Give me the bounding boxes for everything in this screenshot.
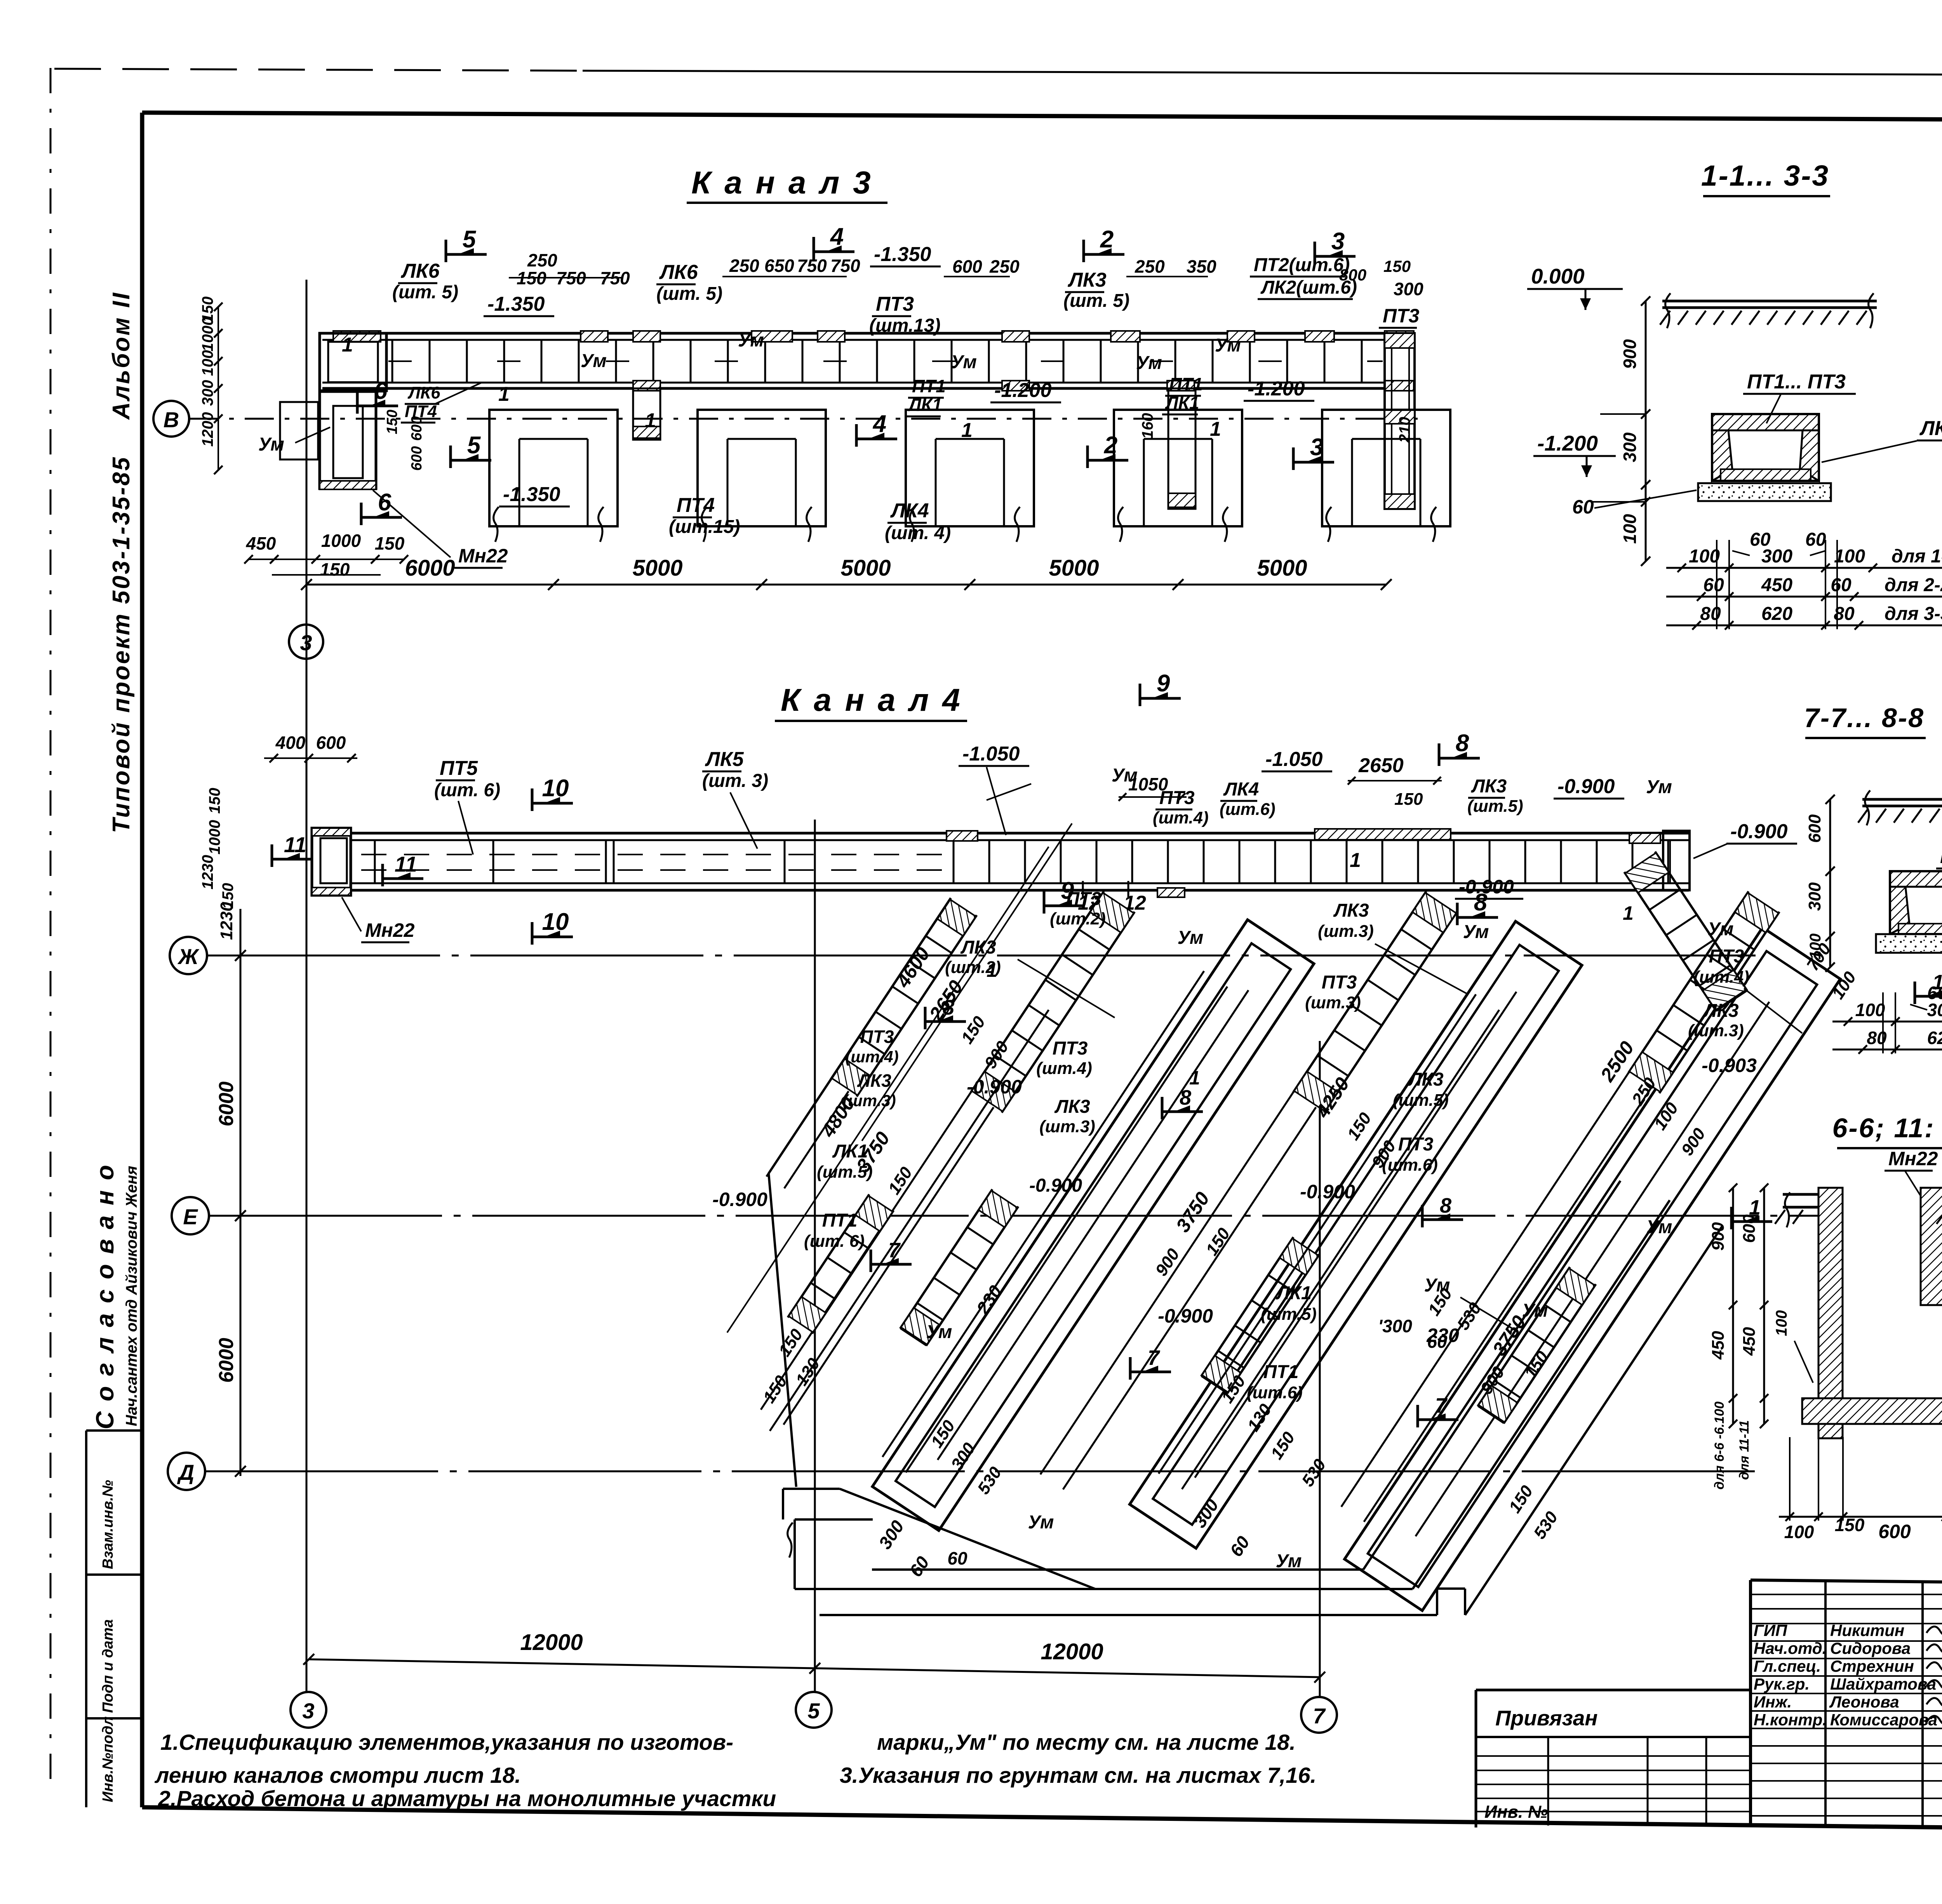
- svg-text:7-7... 8-8: 7-7... 8-8: [1804, 703, 1925, 733]
- svg-text:100: 100: [1784, 1522, 1814, 1542]
- svg-text:1-1... 3-3: 1-1... 3-3: [1701, 159, 1829, 192]
- svg-text:(шт. 6): (шт. 6): [804, 1232, 865, 1251]
- канал 3 section flags: [445, 240, 447, 262]
- svg-text:В: В: [164, 407, 179, 432]
- svg-text:Гл.спец.: Гл.спец.: [1754, 1657, 1821, 1675]
- zone bottom-left hook: [783, 1488, 840, 1490]
- svg-text:-1.350: -1.350: [874, 243, 931, 266]
- канал 3 riser 2: [1168, 388, 1195, 509]
- svg-text:620: 620: [1761, 604, 1792, 624]
- svg-text:'300: '300: [1378, 1316, 1412, 1336]
- svg-text:300: 300: [1927, 1000, 1942, 1020]
- svg-text:Инв. №: Инв. №: [1484, 1802, 1548, 1822]
- svg-text:60: 60: [1572, 496, 1594, 518]
- svg-text:Ж: Ж: [177, 944, 200, 969]
- svg-text:300: 300: [199, 380, 216, 406]
- svg-text:ПТ3: ПТ3: [1383, 305, 1420, 327]
- pit 3 (right wide inspection trench): [1345, 928, 1840, 1611]
- канал 4 hatched patches: [947, 831, 978, 841]
- svg-text:ЛК3: ЛК3: [857, 1070, 891, 1091]
- svg-text:3: 3: [300, 630, 312, 655]
- svg-text:4: 4: [830, 223, 844, 250]
- svg-text:ЛК3: ЛК3: [1067, 269, 1107, 291]
- svg-text:3: 3: [1331, 228, 1345, 255]
- svg-text:100: 100: [1807, 933, 1824, 959]
- svg-text:Леонова: Леонова: [1829, 1693, 1899, 1711]
- svg-text:ПТ1... ПТ3: ПТ1... ПТ3: [1747, 371, 1846, 393]
- svg-text:ПТ5: ПТ5: [440, 757, 478, 780]
- svg-text:11: 11: [395, 852, 417, 876]
- svg-text:Ум: Ум: [1522, 1300, 1548, 1321]
- left margin stamp boxes: [85, 1431, 87, 1807]
- svg-text:3: 3: [302, 1699, 314, 1723]
- svg-text:ЛК3: ЛК3: [1054, 1096, 1090, 1117]
- svg-text:1: 1: [1189, 1067, 1200, 1089]
- svg-text:150: 150: [206, 788, 223, 814]
- svg-text:Мн22: Мн22: [365, 919, 415, 941]
- svg-text:12000: 12000: [1041, 1639, 1103, 1664]
- svg-text:8: 8: [1180, 1086, 1191, 1109]
- svg-text:Шайхратова: Шайхратова: [1830, 1675, 1936, 1693]
- svg-text:Согласовано: Согласовано: [91, 1155, 119, 1429]
- svg-text:ПТ1: ПТ1: [912, 376, 946, 396]
- svg-text:150: 150: [375, 533, 405, 553]
- svg-text:(шт.3): (шт.3): [1305, 993, 1361, 1012]
- канал 3 left start chamber Ум: [320, 333, 386, 391]
- section 6-6 bottom dims: [1779, 1516, 1942, 1518]
- svg-text:-0.900: -0.900: [1730, 820, 1788, 843]
- svg-text:(шт.6): (шт.6): [1247, 1383, 1303, 1402]
- svg-text:Д: Д: [177, 1460, 194, 1485]
- svg-text:300: 300: [1394, 279, 1423, 299]
- svg-text:-0.900: -0.900: [1557, 775, 1615, 798]
- канал 3 detail box on axis B: [280, 402, 318, 459]
- svg-text:250: 250: [527, 250, 557, 270]
- row dimension line 6000/6000 left: [240, 909, 242, 1476]
- svg-text:Ум: Ум: [926, 1322, 952, 1342]
- svg-text:(шт.13): (шт.13): [869, 315, 940, 336]
- svg-text:Типовой проект 503-1-35-85: Типовой проект 503-1-35-85: [108, 456, 135, 833]
- axis Е circle: [172, 1197, 209, 1234]
- svg-text:ЛК1: ЛК1: [908, 395, 942, 415]
- left edge ladder channel of zone: [766, 898, 976, 1194]
- diagonal ladder channel down-right from band end: [1624, 852, 1747, 1011]
- канал 3 column footings: [489, 410, 618, 526]
- svg-text:ПТ4: ПТ4: [677, 494, 715, 517]
- svg-text:Ум: Ум: [1646, 777, 1672, 797]
- svg-text:лению каналов смотри лист 18: лению каналов смотри лист 18.: [154, 1763, 521, 1788]
- section 6-6 left wall: [1818, 1188, 1843, 1438]
- svg-text:ЛК6: ЛК6: [407, 383, 440, 402]
- svg-text:650: 650: [764, 256, 794, 276]
- svg-text:Стрехнин: Стрехнин: [1830, 1657, 1914, 1675]
- канал 4 band rungs dense right: [953, 840, 955, 883]
- svg-text:ЛК3: ЛК3: [1333, 900, 1369, 921]
- svg-text:1: 1: [342, 334, 353, 356]
- svg-text:620: 620: [1927, 1028, 1942, 1048]
- svg-text:(шт. 5): (шт. 5): [656, 284, 722, 304]
- svg-text:6: 6: [374, 378, 388, 404]
- канал 3 riser 1: [633, 388, 660, 440]
- section 1-1 channel cross-section: [1712, 414, 1819, 430]
- svg-text:7: 7: [1435, 1394, 1448, 1417]
- svg-text:-0.903: -0.903: [1702, 1055, 1757, 1076]
- diagonal ladder channel lower segment 1: [900, 1189, 1018, 1346]
- svg-text:(шт.5): (шт.5): [1467, 797, 1523, 816]
- svg-text:100: 100: [1834, 546, 1865, 567]
- svg-text:(шт. 3): (шт. 3): [702, 771, 768, 791]
- svg-text:ПТ3: ПТ3: [1066, 889, 1102, 909]
- svg-text:(шт.4): (шт.4): [1036, 1059, 1092, 1078]
- svg-text:ПТ3: ПТ3: [860, 1027, 894, 1047]
- канал 3 right end chamber: [1385, 333, 1415, 509]
- канал 3 band hatched embedment patches top: [333, 331, 381, 342]
- axis Ж circle: [170, 937, 207, 974]
- svg-text:ПТ3: ПТ3: [1053, 1038, 1088, 1059]
- svg-text:(шт.3): (шт.3): [842, 1091, 896, 1110]
- svg-text:150: 150: [1383, 257, 1411, 275]
- svg-text:ГИП: ГИП: [1754, 1621, 1787, 1639]
- zone left boundary line: [769, 898, 951, 1173]
- svg-text:ПТ1: ПТ1: [1169, 374, 1203, 394]
- section 6-6 floor stubs: [1783, 1193, 1818, 1196]
- svg-text:300: 300: [1761, 546, 1792, 567]
- svg-text:100: 100: [1773, 1310, 1790, 1336]
- канал 4 left start chamber: [312, 828, 351, 895]
- svg-text:Ум: Ум: [951, 352, 977, 372]
- svg-text:К а н а л 3: К а н а л 3: [691, 165, 873, 200]
- svg-text:-0.900: -0.900: [1300, 1181, 1355, 1203]
- svg-text:5000: 5000: [840, 555, 891, 581]
- svg-text:Ум: Ум: [1178, 928, 1204, 948]
- main frame bottom border: [142, 1807, 1942, 1834]
- канал 3 top small dim ticks: [509, 277, 621, 278]
- svg-text:Инж.: Инж.: [1754, 1693, 1792, 1711]
- svg-text:Мн22: Мн22: [458, 545, 508, 567]
- main frame top border: [142, 113, 1942, 122]
- svg-text:Нач.сантех отд Айзикович Женя: Нач.сантех отд Айзикович Женя: [123, 1166, 140, 1426]
- svg-text:80: 80: [1700, 604, 1721, 624]
- svg-text:900: 900: [1709, 1222, 1728, 1251]
- канал 3 band hatched patches bottom: [633, 381, 660, 391]
- section 6-6 vertical dims: [1732, 1188, 1734, 1424]
- svg-text:600: 600: [1878, 1521, 1911, 1542]
- zone bottom-right staircase boundary: [1363, 1181, 1620, 1570]
- svg-text:210: 210: [1396, 417, 1413, 443]
- svg-text:Нач.отд.: Нач.отд.: [1754, 1639, 1827, 1657]
- svg-text:Сидорова: Сидорова: [1830, 1639, 1911, 1657]
- svg-text:Ум: Ум: [1136, 353, 1162, 373]
- svg-text:8: 8: [1456, 730, 1469, 757]
- канал 4 band dashed hidden lines: [361, 854, 948, 855]
- svg-text:150: 150: [1835, 1515, 1865, 1535]
- svg-text:5000: 5000: [1257, 555, 1307, 581]
- svg-text:250: 250: [1135, 256, 1165, 277]
- svg-text:ЛК3: ЛК3: [960, 937, 996, 958]
- svg-text:(шт. 5): (шт. 5): [1063, 291, 1129, 311]
- svg-text:2: 2: [1100, 226, 1114, 253]
- section 6-6 bottom slab: [1802, 1398, 1942, 1424]
- svg-text:5000: 5000: [632, 555, 682, 581]
- svg-text:ПТ3: ПТ3: [1322, 972, 1357, 993]
- svg-text:750: 750: [797, 256, 827, 276]
- svg-text:2650: 2650: [1358, 754, 1404, 777]
- svg-text:Ум: Ум: [1463, 922, 1489, 942]
- axis 3 circle under Канал 3: [289, 625, 323, 659]
- svg-text:60: 60: [1703, 575, 1724, 595]
- section 1-1 base pad: [1698, 483, 1831, 501]
- svg-text:350: 350: [1187, 256, 1216, 277]
- svg-text:Никитин: Никитин: [1830, 1621, 1904, 1639]
- svg-text:Ум: Ум: [1028, 1512, 1054, 1533]
- axis 7 circle bottom: [1301, 1697, 1337, 1733]
- svg-text:ПТ1: ПТ1: [1263, 1362, 1299, 1382]
- zone leader lines: [1018, 959, 1115, 1018]
- svg-text:Ум: Ум: [1215, 335, 1241, 356]
- svg-text:(шт.5): (шт.5): [817, 1163, 873, 1182]
- svg-text:11: 11: [284, 832, 306, 857]
- svg-text:ЛК1: ЛК1: [832, 1141, 868, 1162]
- канал 3 bottom-left dims 450 1000 150 150: [249, 559, 404, 560]
- diagonal ladder channel from band at x4502: [1341, 891, 1779, 1527]
- svg-text:600: 600: [1740, 1214, 1759, 1243]
- svg-text:0.000: 0.000: [1531, 264, 1585, 288]
- svg-text:5: 5: [807, 1699, 820, 1723]
- svg-text:(шт.4): (шт.4): [845, 1048, 898, 1066]
- signature table verticals: [1824, 1581, 1827, 1828]
- канал 4 channel band outline: [312, 832, 1689, 835]
- zone bottom boundary lines: [840, 1489, 1095, 1589]
- svg-text:6000: 6000: [215, 1081, 238, 1126]
- канал 4 dims above left end: [264, 757, 357, 759]
- svg-text:(шт.3): (шт.3): [1688, 1021, 1744, 1040]
- канал 3 main dimension row 6000 5000 5000 5000 5000: [306, 584, 1386, 586]
- svg-text:450: 450: [1740, 1327, 1759, 1356]
- svg-text:150: 150: [219, 883, 237, 909]
- svg-text:Инв.№подл: Инв.№подл: [100, 1716, 116, 1802]
- svg-text:60: 60: [1427, 1331, 1447, 1352]
- svg-text:ПТ3: ПТ3: [1159, 788, 1195, 808]
- svg-text:Ум: Ум: [1708, 919, 1734, 940]
- svg-text:Взам.инв.№: Взам.инв.№: [100, 1480, 116, 1569]
- svg-text:900: 900: [1620, 339, 1640, 369]
- svg-text:450: 450: [1709, 1331, 1728, 1360]
- svg-text:150: 150: [384, 410, 400, 434]
- svg-text:3: 3: [1310, 434, 1323, 461]
- svg-text:(шт. 4): (шт. 4): [885, 523, 951, 543]
- svg-text:для 3-3: для 3-3: [1885, 604, 1942, 624]
- svg-text:450: 450: [1761, 575, 1792, 595]
- svg-text:Ум: Ум: [581, 351, 607, 371]
- svg-text:ЛК4: ЛК4: [1223, 779, 1259, 800]
- svg-text:ЛК3: ЛК3: [1408, 1069, 1443, 1090]
- svg-text:7: 7: [1313, 1704, 1326, 1728]
- svg-text:5000: 5000: [1049, 555, 1099, 581]
- svg-text:1: 1: [987, 959, 997, 981]
- svg-text:ЛК3: ЛК3: [1703, 1001, 1738, 1021]
- svg-text:600: 600: [409, 446, 425, 471]
- svg-text:8: 8: [943, 996, 954, 1019]
- section 7-7 base pad: [1876, 934, 1942, 953]
- svg-text:100: 100: [1689, 546, 1720, 567]
- svg-text:5: 5: [467, 432, 481, 459]
- outer top trim line: [54, 69, 583, 71]
- svg-text:10: 10: [542, 775, 569, 802]
- svg-text:(шт. 6): (шт. 6): [434, 780, 500, 801]
- diagonal ladder channel lower segment 3: [1478, 1267, 1596, 1424]
- svg-text:800: 800: [1339, 266, 1366, 284]
- svg-text:150: 150: [1394, 790, 1423, 809]
- axis B line: [189, 418, 1418, 420]
- svg-text:150: 150: [320, 559, 350, 580]
- svg-text:ПТ3: ПТ3: [876, 293, 914, 315]
- svg-text:9: 9: [1157, 670, 1170, 697]
- axis Д line: [205, 1471, 1756, 1472]
- svg-text:(шт.4): (шт.4): [1693, 968, 1749, 987]
- svg-text:-0.900: -0.900: [1459, 876, 1514, 898]
- diagonal zone dimension chains upper-left: [862, 823, 1072, 1141]
- svg-text:ЛК6: ЛК6: [400, 260, 440, 282]
- svg-text:160: 160: [1139, 413, 1156, 439]
- svg-text:(шт.3): (шт.3): [1318, 922, 1374, 941]
- svg-text:Н.контр.: Н.контр.: [1754, 1711, 1827, 1729]
- svg-text:-1.200: -1.200: [1248, 378, 1305, 400]
- канал 4 right end elbow chamber: [1663, 831, 1690, 890]
- svg-text:80: 80: [1867, 1028, 1887, 1048]
- axis Е line: [209, 1215, 1841, 1217]
- svg-text:(шт.2): (шт.2): [1050, 909, 1106, 928]
- grid axis 3 vertical line: [306, 280, 308, 1692]
- svg-text:(шт. 5): (шт. 5): [392, 282, 458, 303]
- svg-text:60: 60: [947, 1548, 968, 1568]
- grid axis 7 vertical line: [1319, 1041, 1321, 1697]
- section 7-7 vertical dim: [1829, 799, 1831, 967]
- svg-text:1000: 1000: [206, 820, 223, 855]
- svg-text:К а н а л 4: К а н а л 4: [781, 682, 962, 718]
- svg-text:ПТ3: ПТ3: [1709, 946, 1744, 967]
- axis Ж line: [207, 955, 1756, 957]
- svg-text:1: 1: [498, 383, 510, 406]
- svg-text:4: 4: [872, 411, 886, 437]
- left edge lower channel segment: [788, 1194, 893, 1333]
- svg-text:10: 10: [542, 908, 569, 935]
- diagonal zone small section flags: [924, 1007, 927, 1029]
- svg-text:Мн22: Мн22: [1888, 1148, 1938, 1170]
- svg-text:(шт.4): (шт.4): [1153, 808, 1209, 827]
- axis 3 circle bottom: [291, 1692, 326, 1728]
- svg-text:ЛК4: ЛК4: [890, 499, 929, 522]
- канал 3 channel band outline: [322, 332, 1414, 335]
- section 7-7 floor slab: [1862, 798, 1942, 801]
- svg-text:60: 60: [1831, 575, 1852, 595]
- svg-text:ЛК1: ЛК1: [1165, 393, 1199, 413]
- svg-text:-1.200: -1.200: [994, 379, 1052, 402]
- svg-text:Ум: Ум: [1276, 1551, 1302, 1572]
- svg-text:600: 600: [409, 416, 425, 441]
- zone extra channel run lines: [882, 971, 1204, 1457]
- diagonal ladder channel from band at x3672: [1041, 891, 1457, 1495]
- svg-text:ЛК5: ЛК5: [705, 748, 744, 771]
- svg-text:Е: Е: [183, 1204, 198, 1229]
- svg-text:600: 600: [316, 733, 346, 753]
- svg-text:-0.900: -0.900: [1158, 1305, 1213, 1327]
- svg-text:1: 1: [1350, 849, 1361, 872]
- svg-text:600: 600: [952, 256, 982, 277]
- svg-text:Альбом II: Альбом II: [108, 291, 135, 420]
- svg-text:Ум: Ум: [1424, 1275, 1450, 1296]
- section 1-1 vertical dimension line: [1645, 301, 1647, 561]
- svg-text:1.Спецификацию элементов,указа: 1.Спецификацию элементов,указания по изг…: [160, 1730, 733, 1755]
- pit 1 (left inspection trench): [872, 920, 1314, 1530]
- svg-text:1000: 1000: [321, 531, 361, 551]
- svg-text:6000: 6000: [405, 555, 455, 581]
- signature table rows: [1751, 1594, 1942, 1595]
- svg-text:Ум: Ум: [258, 434, 284, 455]
- svg-text:-1.350: -1.350: [487, 293, 545, 315]
- grid axis 5 vertical line: [814, 820, 816, 1692]
- svg-text:100: 100: [1620, 514, 1640, 544]
- svg-text:1: 1: [645, 409, 656, 432]
- svg-text:2.Расход бетона и арматуры на: 2.Расход бетона и арматуры на монолитные…: [158, 1786, 776, 1811]
- axis B circle: [153, 401, 189, 437]
- svg-text:ЛК3: ЛК3: [1471, 776, 1507, 797]
- svg-text:-0.900: -0.900: [967, 1076, 1022, 1098]
- svg-text:-1.050: -1.050: [1265, 748, 1323, 771]
- svg-text:3.Указания по грунтам см. н: 3.Указания по грунтам см. на листах 7,16…: [840, 1763, 1316, 1788]
- svg-text:для 1-1: для 1-1: [1892, 546, 1942, 567]
- svg-text:1: 1: [1210, 418, 1221, 440]
- svg-text:(шт.6): (шт.6): [1220, 800, 1276, 819]
- section 7-7 channel cross-section: [1890, 871, 1942, 887]
- title block outer frame: [1751, 1580, 1942, 1583]
- svg-text:12000: 12000: [520, 1630, 583, 1655]
- axis 5 circle bottom: [796, 1692, 832, 1728]
- section 1-1 floor slab: [1662, 300, 1877, 303]
- svg-text:2: 2: [1104, 432, 1117, 459]
- svg-text:5: 5: [463, 226, 477, 253]
- svg-text:ПТ1;ПТ3: ПТ1;ПТ3: [1940, 846, 1942, 867]
- svg-text:-1.050: -1.050: [962, 743, 1020, 765]
- svg-text:(шт.3): (шт.3): [1039, 1117, 1095, 1136]
- bottom dimension line 12000 12000: [309, 1659, 1320, 1677]
- svg-text:ПТ1: ПТ1: [822, 1210, 858, 1231]
- svg-text:100: 100: [199, 350, 216, 376]
- канал 3 band centre dashed line: [388, 360, 1383, 362]
- svg-text:1: 1: [961, 419, 973, 442]
- svg-text:300: 300: [1805, 882, 1824, 911]
- svg-text:Рук.гр.: Рук.гр.: [1754, 1675, 1810, 1693]
- svg-text:для 6-6 -6.100: для 6-6 -6.100: [1712, 1401, 1727, 1490]
- svg-text:6: 6: [378, 489, 392, 516]
- svg-text:Ум: Ум: [1646, 1217, 1672, 1237]
- svg-text:1200: 1200: [199, 412, 216, 447]
- svg-text:Комиссарова: Комиссарова: [1830, 1711, 1937, 1729]
- pit 2 (middle inspection trench): [1130, 921, 1582, 1548]
- svg-text:1: 1: [1623, 902, 1634, 924]
- svg-text:250: 250: [989, 256, 1020, 277]
- svg-text:600: 600: [1805, 814, 1824, 843]
- канал 3 band rungs: [392, 340, 393, 383]
- svg-text:Ум: Ум: [738, 330, 764, 351]
- канал 4 band rungs sparse left: [374, 840, 376, 883]
- svg-text:Подп и дата: Подп и дата: [100, 1619, 116, 1713]
- svg-text:для 2-2: для 2-2: [1885, 575, 1942, 595]
- svg-text:(шт.15): (шт.15): [669, 517, 740, 537]
- svg-text:-1.350: -1.350: [503, 483, 560, 506]
- svg-text:-0.900: -0.900: [712, 1189, 767, 1210]
- svg-text:(шт.6): (шт.6): [1382, 1156, 1438, 1175]
- svg-text:ЛК6: ЛК6: [659, 261, 698, 284]
